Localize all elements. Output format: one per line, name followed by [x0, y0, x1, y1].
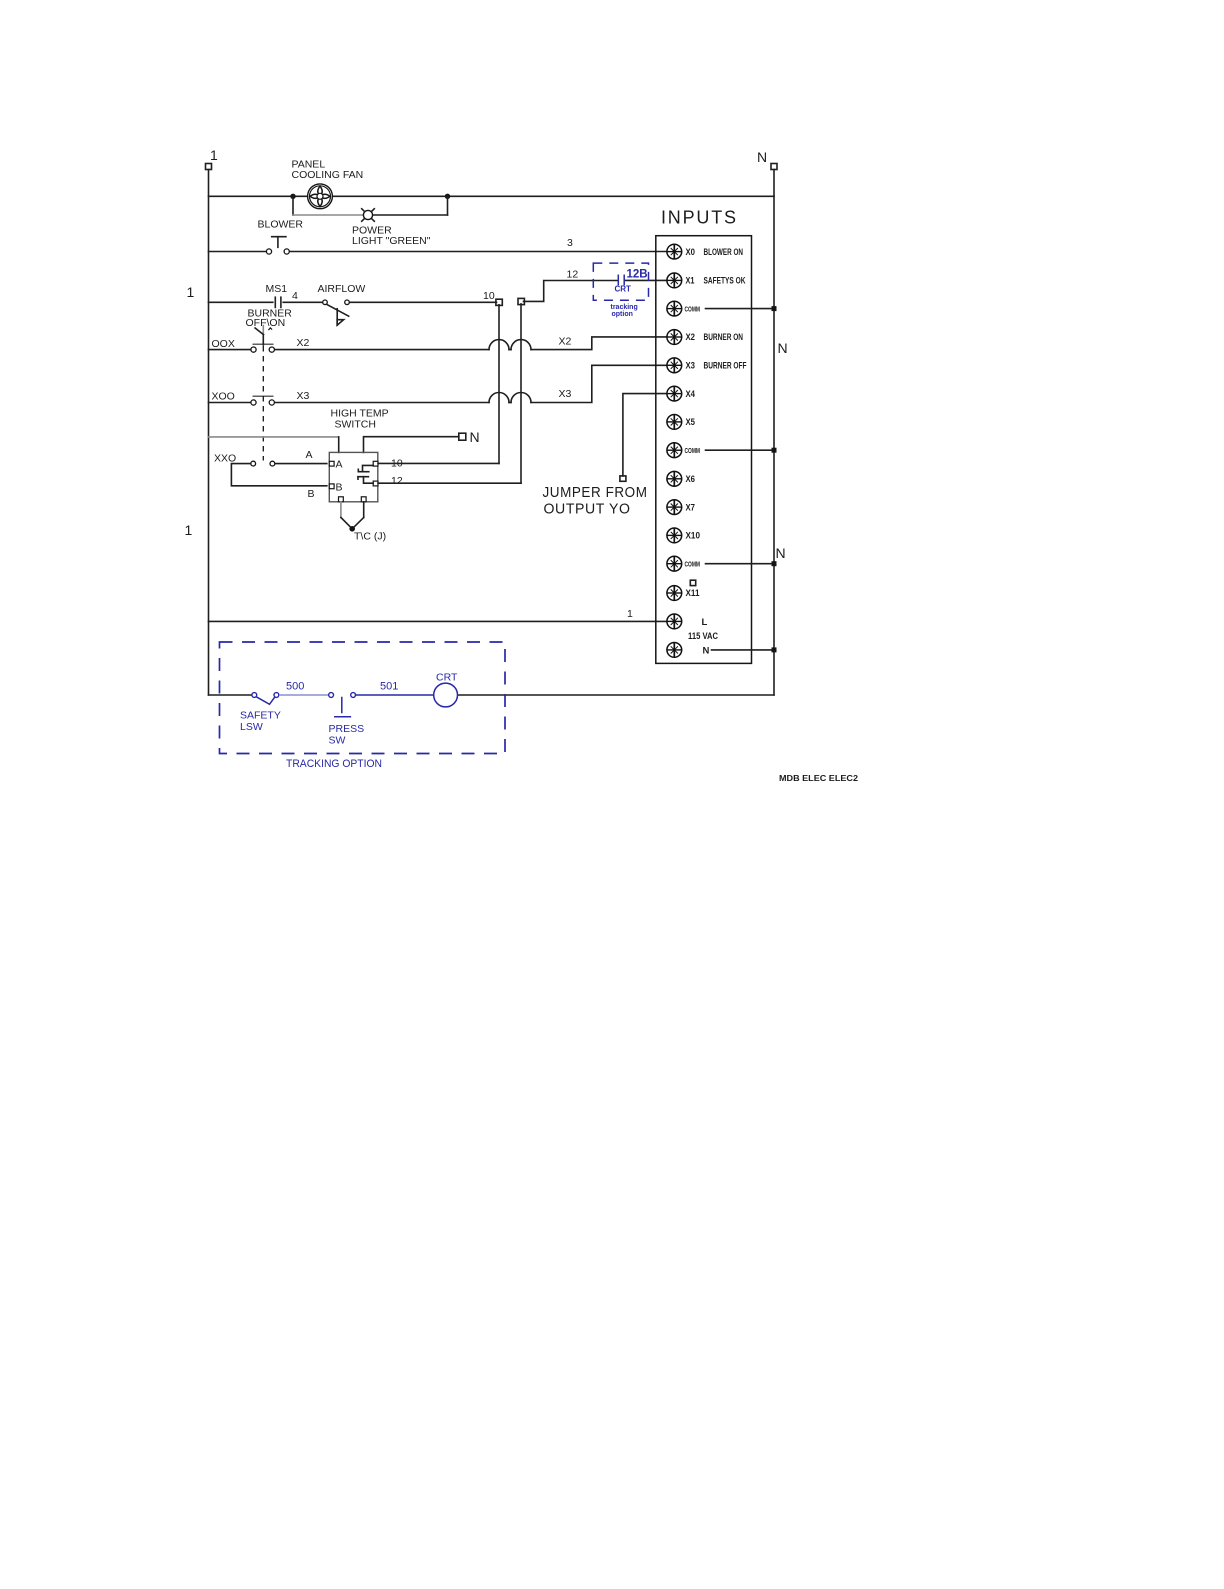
high temp switch box U1 — [329, 452, 378, 501]
wire switch top to N square — [364, 437, 459, 453]
terminal COMM y450 — [667, 443, 777, 458]
svg-text:BURNER OFF: BURNER OFF — [704, 361, 747, 372]
svg-text:COOLING FAN: COOLING FAN — [292, 169, 364, 181]
terminal X11 y593 — [667, 586, 700, 601]
svg-text:X1: X1 — [686, 276, 696, 287]
svg-text:N: N — [776, 545, 786, 561]
svg-text:OFF\ON: OFF\ON — [246, 317, 286, 329]
svg-text:4: 4 — [292, 290, 298, 302]
svg-text:A: A — [336, 459, 343, 471]
wire CRT contact to X1 — [625, 279, 667, 281]
svg-text:N: N — [778, 340, 788, 356]
wire power light branch — [293, 196, 448, 215]
svg-text:A: A — [306, 449, 313, 461]
svg-text:BLOWER ON: BLOWER ON — [704, 247, 744, 258]
thermal contact inside switch — [358, 465, 373, 483]
svg-text:SWITCH: SWITCH — [335, 419, 376, 431]
svg-text:1: 1 — [210, 147, 218, 163]
thermocouple wires TC — [341, 502, 364, 532]
svg-text:501: 501 — [380, 681, 398, 693]
label POWER LIGHT GREEN — [352, 225, 431, 248]
label SAFETY LSW — [240, 710, 281, 734]
svg-text:N: N — [757, 149, 767, 165]
svg-text:N: N — [703, 645, 710, 656]
svg-text:CRT: CRT — [436, 672, 458, 684]
svg-text:X10: X10 — [686, 531, 701, 542]
terminal X3 y365 — [667, 358, 747, 373]
svg-text:12: 12 — [391, 475, 403, 487]
contact MS1 NO — [275, 297, 281, 307]
svg-text:MS1: MS1 — [266, 283, 288, 295]
terminal X7 y507 — [667, 500, 695, 515]
svg-text:XOO: XOO — [212, 391, 235, 403]
svg-text:SW: SW — [329, 735, 346, 747]
svg-text:X6: X6 — [686, 474, 696, 485]
wire rung 3 airflow — [209, 301, 497, 303]
svg-text:SAFETYS OK: SAFETYS OK — [704, 276, 746, 287]
coil CRT — [434, 683, 458, 707]
terminal X4 y393 — [667, 386, 696, 401]
wire vertical node10 to switch — [378, 305, 499, 464]
svg-text:X3: X3 — [559, 388, 572, 400]
tracking option CRT contact block (blue) — [593, 263, 648, 318]
svg-text:X11: X11 — [686, 588, 701, 599]
terminal X5 y421 — [667, 415, 696, 430]
junction dot A — [290, 194, 295, 199]
motor fan M1 panel cooling fan — [308, 184, 333, 209]
node square above X11 — [690, 580, 695, 585]
svg-text:L: L — [702, 617, 708, 628]
svg-text:B: B — [308, 488, 315, 500]
terminal X6 y478 — [667, 471, 695, 486]
node N square mid — [459, 429, 480, 445]
node 1 terminal top-left — [206, 147, 219, 170]
pilot light PL1 power light green — [362, 209, 375, 222]
wire from node 12 up to CRT contact rung — [524, 281, 619, 302]
pushbutton blower NO — [266, 237, 289, 254]
wire rung 2 blower — [209, 251, 668, 253]
label PRESS SW — [329, 723, 365, 747]
wire rung 5 burner-off — [209, 365, 668, 402]
wire vertical node12 to switch — [378, 304, 521, 483]
svg-text:X2: X2 — [559, 336, 572, 348]
wire 501 (blue) — [356, 694, 434, 696]
terminal COMM y308 — [667, 301, 777, 316]
svg-text:MDB ELEC ELEC2: MDB ELEC ELEC2 — [779, 773, 858, 783]
svg-text:LIGHT "GREEN": LIGHT "GREEN" — [352, 235, 431, 247]
wire rung 4 burner-on — [209, 337, 668, 350]
terminal X0 y251 — [667, 244, 743, 259]
limit switch SAFETY LSW — [252, 693, 279, 705]
mechanical link dashed — [262, 346, 264, 461]
svg-text:115 VAC: 115 VAC — [688, 631, 718, 642]
label HIGH TEMP SWITCH — [331, 408, 389, 431]
svg-text:X2: X2 — [686, 332, 696, 343]
terminal X1 y280 — [667, 273, 746, 288]
terminal X10 y535 — [667, 528, 700, 543]
terminal COMM y563 — [667, 556, 777, 571]
svg-text:XXO: XXO — [214, 453, 236, 465]
svg-text:X7: X7 — [686, 502, 696, 513]
wire jumper from X4 — [623, 394, 667, 476]
node square 12 — [518, 298, 524, 304]
svg-text:X2: X2 — [297, 337, 310, 349]
svg-text:INPUTS: INPUTS — [661, 208, 738, 228]
svg-text:N: N — [470, 429, 480, 445]
svg-text:B: B — [336, 482, 343, 494]
contact OOX NC — [251, 344, 275, 352]
svg-text:COMM: COMM — [685, 560, 701, 569]
svg-text:option: option — [612, 311, 633, 318]
label PANEL COOLING FAN — [292, 159, 364, 182]
svg-text:BLOWER: BLOWER — [258, 219, 304, 231]
svg-text:TRACKING OPTION: TRACKING OPTION — [286, 758, 382, 770]
wire right rail N — [773, 170, 775, 696]
terminal L y621 — [667, 614, 718, 642]
svg-text:AIRFLOW: AIRFLOW — [318, 283, 366, 295]
svg-text:CRT: CRT — [615, 285, 632, 294]
flow switch airflow — [323, 300, 350, 325]
contact XXO — [251, 461, 275, 466]
label JUMPER FROM OUTPUT YO — [543, 485, 648, 518]
wire bottom rung — [209, 694, 775, 696]
wire L rung — [209, 620, 668, 622]
svg-text:OOX: OOX — [212, 338, 235, 350]
svg-text:X3: X3 — [686, 361, 696, 372]
terminal X2 y337 — [667, 330, 743, 345]
svg-text:X0: X0 — [686, 247, 696, 258]
svg-text:BURNER ON: BURNER ON — [704, 332, 744, 343]
svg-text:X5: X5 — [686, 417, 696, 428]
svg-text:12B: 12B — [627, 268, 648, 280]
svg-text:PRESS: PRESS — [329, 723, 365, 735]
svg-text:12: 12 — [567, 269, 579, 281]
svg-text:1: 1 — [185, 522, 193, 538]
junction dot B — [445, 194, 450, 199]
selector switch BURNER OFF/ON — [246, 308, 293, 346]
svg-text:3: 3 — [567, 237, 573, 249]
node N terminal top-right — [757, 149, 777, 170]
svg-text:X4: X4 — [686, 389, 696, 400]
wire feeder from rail to switch top (gray) — [209, 437, 339, 453]
wire rung 1 — [209, 195, 775, 197]
svg-text:JUMPER FROM: JUMPER FROM — [543, 485, 648, 501]
svg-text:OUTPUT YO: OUTPUT YO — [544, 502, 631, 518]
svg-text:T\C (J): T\C (J) — [354, 531, 386, 543]
svg-text:COMM: COMM — [685, 304, 701, 313]
svg-text:SAFETY: SAFETY — [240, 710, 281, 722]
svg-text:LSW: LSW — [240, 721, 263, 733]
wire XXO stub — [231, 464, 326, 486]
svg-text:1: 1 — [187, 284, 195, 300]
node square 10 — [496, 299, 502, 305]
svg-text:tracking: tracking — [611, 304, 638, 311]
tracking option box (blue dashed) — [220, 642, 506, 754]
svg-text:1: 1 — [627, 608, 633, 620]
pressure switch PRESS SW — [329, 693, 356, 717]
terminal N y649 — [667, 643, 777, 658]
wire 500 (light blue) — [279, 694, 329, 696]
svg-text:X3: X3 — [297, 390, 310, 402]
contact XOO NC — [251, 396, 275, 405]
svg-text:COMM: COMM — [685, 446, 701, 455]
wire left rail L1 — [208, 170, 210, 696]
INPUTS box — [656, 236, 752, 664]
svg-text:10: 10 — [483, 290, 495, 302]
svg-text:500: 500 — [286, 681, 304, 693]
node jumper square — [620, 476, 626, 481]
